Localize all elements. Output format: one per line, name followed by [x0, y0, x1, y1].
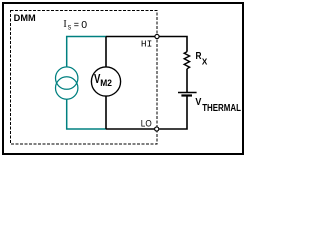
- svg-text:THERMAL: THERMAL: [202, 103, 241, 114]
- node HI: [155, 34, 159, 38]
- svg-text:=: =: [74, 19, 79, 31]
- wire: HI to resistor: [159, 37, 187, 52]
- svg-text:V: V: [195, 96, 201, 108]
- svg-text:X: X: [202, 57, 208, 67]
- wire: HI bus: [106, 36, 155, 38]
- DMM dashed enclosure: [11, 11, 158, 145]
- label Is = 0: [63, 19, 87, 32]
- svg-text:0: 0: [81, 19, 87, 31]
- svg-text:M2: M2: [100, 78, 112, 89]
- svg-text:S: S: [68, 25, 72, 32]
- wire: current source bottom lead (teal): [67, 99, 106, 129]
- svg-text:HI: HI: [141, 38, 152, 49]
- battery Vthermal short plate: [181, 94, 192, 96]
- svg-text:R: R: [196, 50, 202, 62]
- wire: battery to LO: [159, 95, 187, 129]
- wire: voltmeter top lead: [105, 37, 107, 68]
- voltmeter VM2: [91, 67, 120, 96]
- svg-text:LO: LO: [141, 118, 152, 128]
- outer frame: [3, 3, 243, 154]
- svg-text:I: I: [63, 19, 66, 30]
- svg-text:DMM: DMM: [14, 13, 36, 23]
- node LO: [155, 127, 159, 131]
- resistor RX: [184, 52, 189, 69]
- battery Vthermal long plate: [178, 92, 197, 94]
- wire: LO bus: [106, 128, 154, 130]
- wire: resistor to battery: [186, 69, 188, 93]
- wire: current source top lead (teal): [67, 37, 106, 68]
- wire: voltmeter bottom lead: [105, 96, 107, 129]
- current source Is (two overlapping circles): [55, 67, 77, 99]
